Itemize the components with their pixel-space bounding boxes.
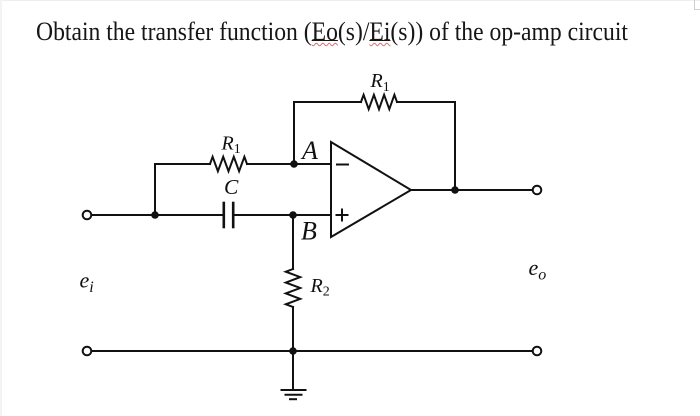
- wire input rail ei to capacitor: [92, 214, 224, 216]
- wire feedback top left: [294, 101, 361, 103]
- wire feedback down to output node: [454, 102, 456, 190]
- node B junction: [289, 211, 297, 219]
- svg-text:eo: eo: [529, 255, 547, 284]
- terminal ei top: [83, 211, 92, 220]
- svg-text:R1: R1: [221, 133, 241, 158]
- terminal eo top: [533, 186, 542, 195]
- node junction input: [151, 211, 159, 219]
- svg-text:C: C: [224, 175, 239, 199]
- op-amp minus sign: [337, 164, 348, 166]
- resistor R2: [286, 269, 300, 307]
- node ground junction: [289, 347, 297, 355]
- wire node B down to R2: [292, 215, 294, 269]
- terminal eo bottom: [533, 347, 542, 356]
- svg-text:R1: R1: [370, 70, 390, 95]
- svg-text:B: B: [301, 216, 317, 245]
- svg-text:A: A: [300, 136, 318, 165]
- wire R2 to bottom rail: [292, 307, 294, 351]
- wire junction up to R1 branch: [154, 164, 156, 215]
- wire op-amp output to terminal eo: [411, 189, 532, 191]
- wire to R1 input resistor: [155, 163, 210, 165]
- wire node A up to feedback: [293, 102, 295, 164]
- resistor R1 (input): [210, 157, 247, 171]
- wire feedback top right: [397, 101, 455, 103]
- resistor R1 (feedback): [361, 95, 397, 109]
- wire bottom rail: [93, 350, 531, 352]
- svg-text:ei: ei: [80, 268, 94, 297]
- wire R1 to node A and minus input: [247, 163, 331, 165]
- op-amp plus sign: [337, 210, 348, 221]
- svg-text:R2: R2: [310, 275, 330, 299]
- op-amp U1: [331, 142, 411, 237]
- wire capacitor to op-amp plus input: [233, 214, 331, 216]
- node output junction: [451, 186, 459, 194]
- title text: [36, 17, 628, 47]
- ground symbol: [282, 389, 306, 391]
- capacitor C: [223, 203, 226, 227]
- terminal ei bottom: [83, 347, 92, 356]
- node A junction: [290, 160, 298, 168]
- wire ground stem: [292, 351, 294, 389]
